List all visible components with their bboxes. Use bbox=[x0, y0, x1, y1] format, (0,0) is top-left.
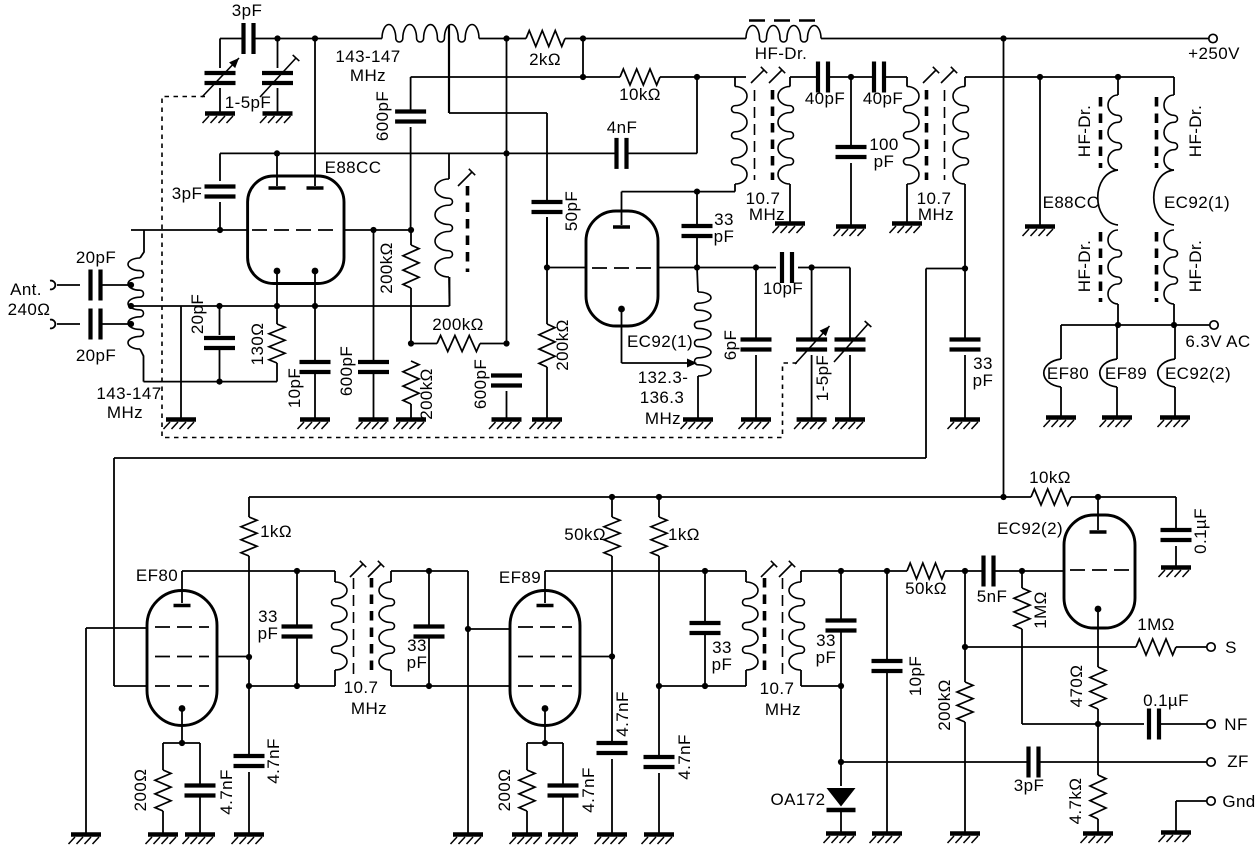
svg-text:2kΩ: 2kΩ bbox=[529, 50, 561, 69]
svg-text:20pF: 20pF bbox=[76, 248, 116, 267]
svg-text:pF: pF bbox=[407, 653, 428, 672]
svg-text:200kΩ: 200kΩ bbox=[432, 315, 484, 334]
svg-text:20pF: 20pF bbox=[188, 294, 207, 334]
svg-text:132.3-: 132.3- bbox=[638, 368, 689, 387]
svg-text:40pF: 40pF bbox=[863, 89, 903, 108]
svg-text:470Ω: 470Ω bbox=[1067, 665, 1086, 708]
svg-text:50pF: 50pF bbox=[562, 191, 581, 231]
svg-text:4.7nF: 4.7nF bbox=[579, 767, 598, 812]
svg-text:pF: pF bbox=[973, 371, 994, 390]
svg-text:Ant.: Ant. bbox=[10, 280, 42, 299]
svg-text:0.1µF: 0.1µF bbox=[1143, 691, 1189, 710]
svg-text:4.7nF: 4.7nF bbox=[613, 691, 632, 736]
svg-text:EC92(2): EC92(2) bbox=[1165, 364, 1231, 383]
svg-text:EC92(1): EC92(1) bbox=[1164, 193, 1230, 212]
svg-text:4nF: 4nF bbox=[607, 118, 638, 137]
svg-text:OA172: OA172 bbox=[771, 790, 826, 809]
svg-text:5nF: 5nF bbox=[977, 587, 1008, 606]
svg-text:3pF: 3pF bbox=[172, 184, 203, 203]
svg-text:4.7nF: 4.7nF bbox=[217, 769, 236, 814]
svg-text:pF: pF bbox=[258, 624, 279, 643]
svg-text:136.3: 136.3 bbox=[640, 388, 685, 407]
svg-text:200Ω: 200Ω bbox=[495, 769, 514, 812]
svg-text:E88CC: E88CC bbox=[1043, 193, 1100, 212]
svg-text:6pF: 6pF bbox=[721, 330, 740, 361]
svg-text:10pF: 10pF bbox=[763, 279, 803, 298]
svg-text:1-5pF: 1-5pF bbox=[813, 355, 832, 401]
svg-text:Gnd: Gnd bbox=[1222, 792, 1255, 811]
svg-text:1kΩ: 1kΩ bbox=[668, 525, 700, 544]
svg-text:240Ω: 240Ω bbox=[8, 300, 51, 319]
svg-text:S: S bbox=[1225, 638, 1237, 657]
svg-text:3pF: 3pF bbox=[232, 1, 263, 20]
svg-text:600pF: 600pF bbox=[373, 91, 392, 141]
svg-text:1MΩ: 1MΩ bbox=[1031, 591, 1050, 629]
svg-text:EF80: EF80 bbox=[136, 566, 178, 585]
svg-text:10kΩ: 10kΩ bbox=[1029, 468, 1071, 487]
svg-text:MHz: MHz bbox=[351, 699, 387, 718]
svg-text:EC92(1): EC92(1) bbox=[627, 332, 693, 351]
svg-text:143-147: 143-147 bbox=[96, 384, 161, 403]
svg-text:MHz: MHz bbox=[918, 205, 954, 224]
svg-text:200Ω: 200Ω bbox=[131, 769, 150, 812]
svg-text:HF-Dr.: HF-Dr. bbox=[1186, 105, 1205, 157]
svg-text:EF80: EF80 bbox=[1047, 364, 1089, 383]
svg-text:HF-Dr.: HF-Dr. bbox=[1075, 240, 1094, 292]
svg-text:10.7: 10.7 bbox=[344, 678, 379, 697]
svg-text:+250V: +250V bbox=[1188, 44, 1240, 63]
svg-text:HF-Dr.: HF-Dr. bbox=[1186, 240, 1205, 292]
svg-text:10pF: 10pF bbox=[906, 656, 925, 696]
svg-text:EF89: EF89 bbox=[1105, 364, 1147, 383]
svg-text:EC92(2): EC92(2) bbox=[997, 519, 1063, 538]
svg-text:10.7: 10.7 bbox=[760, 679, 795, 698]
svg-text:130Ω: 130Ω bbox=[248, 323, 267, 366]
svg-text:pF: pF bbox=[874, 152, 895, 171]
svg-text:1-5pF: 1-5pF bbox=[225, 93, 271, 112]
svg-text:200kΩ: 200kΩ bbox=[935, 679, 954, 731]
svg-text:10pF: 10pF bbox=[285, 368, 304, 408]
svg-text:4.7nF: 4.7nF bbox=[675, 734, 694, 779]
svg-text:50kΩ: 50kΩ bbox=[905, 579, 947, 598]
svg-text:MHz: MHz bbox=[749, 205, 785, 224]
svg-text:200kΩ: 200kΩ bbox=[553, 319, 572, 371]
svg-text:MHz: MHz bbox=[107, 403, 143, 422]
svg-text:40pF: 40pF bbox=[805, 89, 845, 108]
svg-text:MHz: MHz bbox=[645, 409, 681, 428]
svg-text:1MΩ: 1MΩ bbox=[1137, 615, 1175, 634]
svg-text:50kΩ: 50kΩ bbox=[564, 525, 606, 544]
svg-text:HF-Dr.: HF-Dr. bbox=[755, 44, 807, 63]
svg-text:ZF: ZF bbox=[1227, 752, 1249, 771]
svg-text:200kΩ: 200kΩ bbox=[417, 368, 436, 420]
svg-text:pF: pF bbox=[816, 648, 837, 667]
svg-text:143-147: 143-147 bbox=[335, 47, 400, 66]
svg-text:10kΩ: 10kΩ bbox=[619, 85, 661, 104]
svg-text:6.3V AC: 6.3V AC bbox=[1185, 332, 1250, 351]
svg-text:1kΩ: 1kΩ bbox=[260, 522, 292, 541]
svg-text:pF: pF bbox=[714, 227, 735, 246]
svg-text:NF: NF bbox=[1224, 715, 1247, 734]
svg-text:pF: pF bbox=[712, 655, 733, 674]
svg-text:3pF: 3pF bbox=[1014, 776, 1045, 795]
svg-text:600pF: 600pF bbox=[337, 346, 356, 396]
svg-text:0.1µF: 0.1µF bbox=[1191, 508, 1210, 554]
svg-text:HF-Dr.: HF-Dr. bbox=[1075, 105, 1094, 157]
svg-text:4.7nF: 4.7nF bbox=[264, 738, 283, 783]
svg-text:MHz: MHz bbox=[350, 66, 386, 85]
svg-text:200kΩ: 200kΩ bbox=[377, 242, 396, 294]
svg-text:EF89: EF89 bbox=[499, 568, 541, 587]
svg-text:4.7kΩ: 4.7kΩ bbox=[1066, 778, 1085, 825]
svg-text:MHz: MHz bbox=[765, 700, 801, 719]
svg-text:600pF: 600pF bbox=[471, 359, 490, 409]
svg-text:E88CC: E88CC bbox=[325, 158, 382, 177]
svg-text:20pF: 20pF bbox=[76, 346, 116, 365]
